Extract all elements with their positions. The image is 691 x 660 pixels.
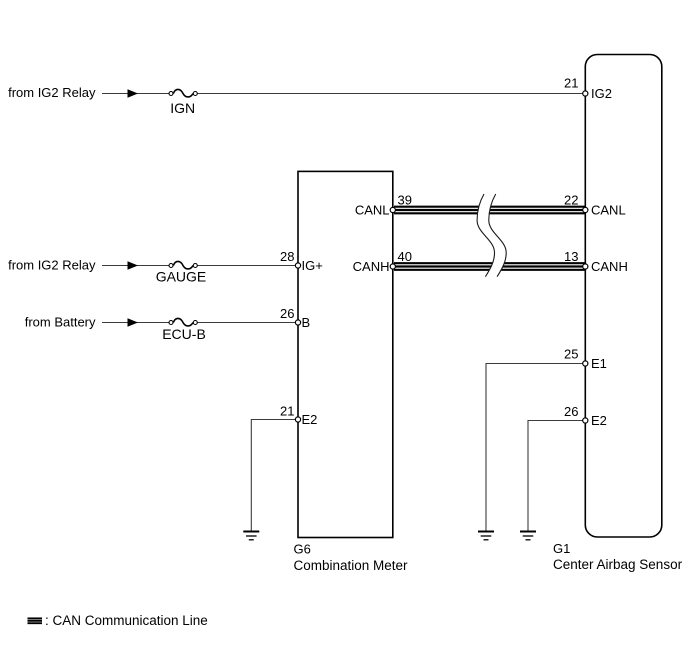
terminal: meter pin 21 E2 <box>295 417 300 422</box>
svg-text:25: 25 <box>564 347 578 362</box>
CAN line CANH (pin 40 to pin 13) <box>394 263 585 270</box>
svg-text:ECU-B: ECU-B <box>162 326 206 342</box>
wire: IGN fuse to Center Airbag Sensor pin 21 <box>198 93 586 95</box>
terminal: sensor pin 13 CANH <box>583 264 588 269</box>
wire: GAUGE fuse to Combination Meter pin 28 <box>198 265 298 267</box>
svg-text:IG+: IG+ <box>302 258 323 273</box>
wire: from IG2 Relay to IGN fuse <box>102 93 169 95</box>
svg-text:21: 21 <box>280 404 294 419</box>
svg-text:G6: G6 <box>294 542 311 557</box>
arrow: from IG2 Relay (row 2) <box>128 261 139 270</box>
wire: Combination Meter E2 to ground <box>251 420 298 531</box>
svg-text:from Battery: from Battery <box>25 315 96 330</box>
fuse IGN <box>169 89 197 97</box>
svg-text:Center Airbag Sensor: Center Airbag Sensor <box>553 557 683 572</box>
svg-text:40: 40 <box>398 249 412 264</box>
fuse ECU-B <box>169 318 197 326</box>
ground (Center Airbag Sensor E1) <box>478 532 494 540</box>
fuse GAUGE <box>169 261 197 269</box>
ground (Center Airbag Sensor E2) <box>520 532 536 540</box>
svg-text:E2: E2 <box>591 413 607 428</box>
svg-text:E1: E1 <box>591 356 607 371</box>
svg-text:CANH: CANH <box>353 259 390 274</box>
terminal: meter pin 39 CANL <box>390 207 395 212</box>
wire: from Battery to ECU-B fuse <box>102 322 169 324</box>
arrow: from Battery (row 3) <box>128 318 139 327</box>
svg-text:G1: G1 <box>553 541 570 556</box>
wire: from IG2 Relay to GAUGE fuse <box>102 265 169 267</box>
wire: Center Airbag Sensor E2 to ground <box>528 421 585 531</box>
svg-text:: CAN Communication Line: : CAN Communication Line <box>45 613 208 628</box>
svg-text:IGN: IGN <box>170 100 195 116</box>
svg-text:B: B <box>302 315 311 330</box>
svg-text:21: 21 <box>564 76 578 91</box>
CAN line CANL (pin 39 to pin 22) <box>394 207 585 214</box>
legend CAN line symbol <box>28 618 43 623</box>
svg-text:26: 26 <box>564 404 578 419</box>
wire: ECU-B fuse to Combination Meter pin 26 <box>198 322 298 324</box>
terminal: meter pin 26 B <box>295 320 300 325</box>
svg-text:E2: E2 <box>302 412 318 427</box>
svg-text:from IG2 Relay: from IG2 Relay <box>8 85 96 100</box>
terminal: meter pin 28 IG+ <box>295 263 300 268</box>
ground (Combination Meter E2) <box>243 532 259 540</box>
terminal: meter pin 40 CANH <box>390 264 395 269</box>
terminal: sensor pin 26 E2 <box>583 418 588 423</box>
center airbag sensor box <box>585 55 662 538</box>
svg-text:IG2: IG2 <box>591 86 612 101</box>
svg-text:13: 13 <box>564 249 578 264</box>
svg-text:GAUGE: GAUGE <box>156 269 207 285</box>
wire: Center Airbag Sensor E1 to ground <box>486 364 585 531</box>
svg-text:22: 22 <box>564 193 578 208</box>
svg-text:39: 39 <box>398 193 412 208</box>
svg-text:CANL: CANL <box>355 203 390 218</box>
svg-text:CANL: CANL <box>591 203 626 218</box>
terminal: sensor pin 22 CANL <box>583 207 588 212</box>
wire break wave symbol <box>477 194 506 277</box>
arrow: from IG2 Relay (row 1) <box>128 89 139 98</box>
svg-text:26: 26 <box>280 306 294 321</box>
svg-text:CANH: CANH <box>591 259 628 274</box>
combination meter box <box>298 171 393 537</box>
terminal: sensor pin 21 IG2 <box>583 91 588 96</box>
terminal: sensor pin 25 E1 <box>583 361 588 366</box>
svg-text:Combination Meter: Combination Meter <box>294 558 409 573</box>
svg-text:28: 28 <box>280 249 294 264</box>
svg-text:from IG2 Relay: from IG2 Relay <box>8 258 96 273</box>
